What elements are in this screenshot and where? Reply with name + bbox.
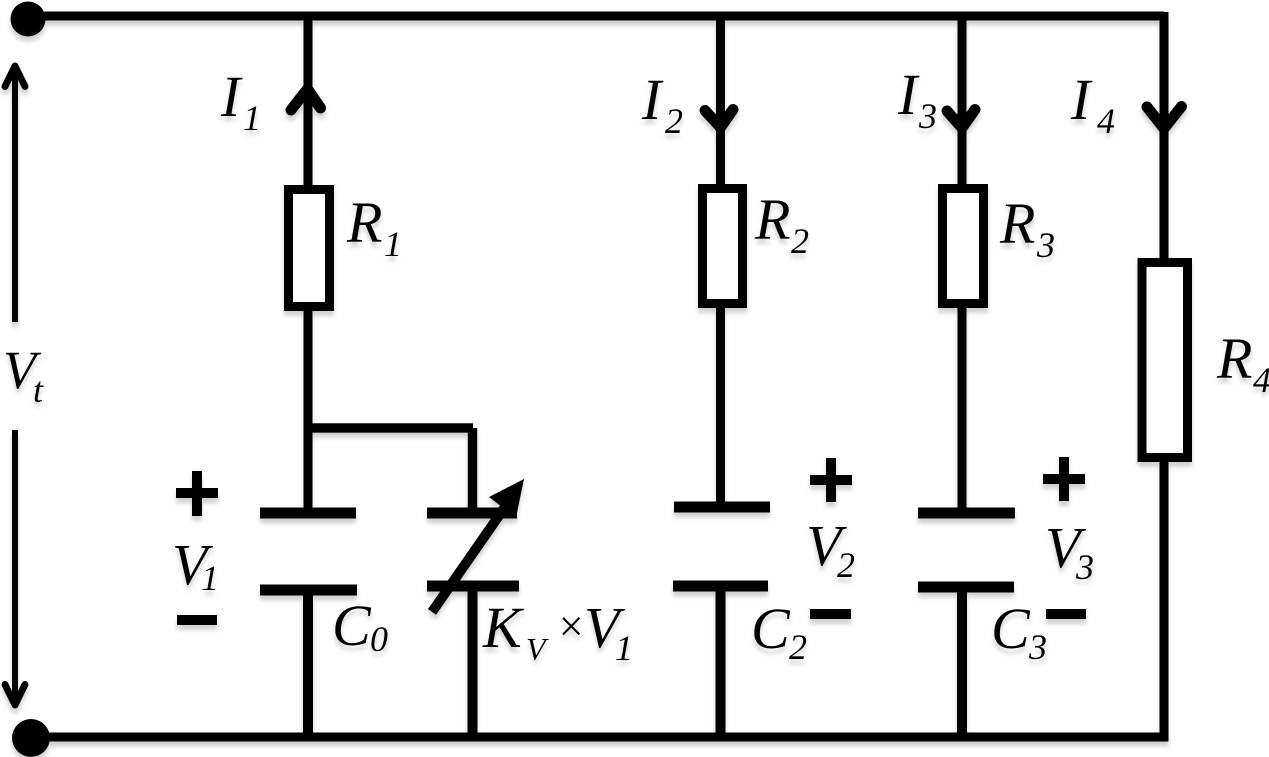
arrow I2 (down): [705, 110, 733, 128]
svg-text:2: 2: [665, 101, 683, 141]
resistor R1: [289, 190, 330, 307]
capacitor C2 top plate: [674, 502, 770, 513]
wire R3 to C3: [958, 303, 967, 508]
wire varactor to bottom rail: [468, 586, 478, 737]
wire R1 to C0: [304, 306, 313, 509]
wire right vertical upper: [1160, 12, 1169, 262]
wire C3 to bottom rail: [957, 587, 967, 737]
svg-text:V: V: [526, 631, 549, 667]
label minus V2: [810, 609, 851, 619]
svg-text:K: K: [482, 595, 525, 660]
arrow I1 (up): [291, 89, 321, 110]
svg-text:I: I: [1070, 67, 1093, 132]
svg-text:C: C: [332, 593, 372, 658]
capacitor C3 bottom plate: [918, 582, 1014, 593]
wire branch1 top: [304, 16, 313, 189]
svg-text:1: 1: [615, 628, 633, 668]
wire branch2 top: [716, 16, 725, 188]
svg-text:3: 3: [1075, 547, 1094, 587]
node bottom-left: [12, 719, 50, 757]
varactor arrow diagonal: [432, 507, 505, 612]
Vt double arrow: [5, 66, 25, 705]
svg-text:I: I: [641, 67, 664, 132]
varactor bottom plate: [427, 581, 519, 592]
svg-text:3: 3: [1028, 627, 1047, 667]
wire bottom rail: [31, 733, 1169, 742]
svg-text:1: 1: [201, 558, 219, 598]
svg-text:C: C: [751, 596, 791, 661]
svg-text:R: R: [346, 190, 382, 255]
wire right vertical lower: [1160, 457, 1169, 741]
resistor R2: [703, 189, 743, 304]
arrow I4 (down): [1147, 107, 1182, 129]
label plus V1: [176, 471, 218, 516]
svg-text:0: 0: [370, 619, 388, 659]
wire C0 to bottom rail: [303, 590, 313, 737]
svg-text:2: 2: [791, 221, 809, 261]
capacitor C0 bottom plate: [260, 585, 357, 596]
svg-text:I: I: [220, 64, 243, 129]
svg-text:3: 3: [1036, 225, 1055, 265]
svg-text:4: 4: [1097, 101, 1115, 141]
svg-text:R: R: [999, 191, 1035, 256]
varactor top plate: [427, 508, 517, 519]
node top-left: [11, 2, 46, 37]
label minus V1: [177, 615, 217, 625]
label minus V3: [1046, 609, 1086, 619]
wire branch3 top: [958, 16, 967, 188]
svg-text:3: 3: [918, 96, 937, 136]
svg-text:×: ×: [556, 602, 586, 651]
svg-text:R: R: [754, 187, 790, 252]
wire top rail: [28, 12, 1164, 21]
svg-text:2: 2: [837, 545, 855, 585]
wire T-branch horizontal: [308, 423, 473, 433]
capacitor C0 top plate: [260, 508, 356, 519]
svg-text:R: R: [1216, 326, 1252, 391]
svg-text:I: I: [897, 62, 920, 127]
svg-text:4: 4: [1253, 360, 1269, 400]
wire C2 to bottom rail: [716, 586, 726, 737]
svg-text:1: 1: [243, 98, 261, 138]
label plus V3: [1043, 457, 1085, 501]
resistor R3: [943, 189, 984, 304]
resistor R4: [1142, 263, 1188, 458]
label plus V2: [810, 458, 852, 502]
capacitor C3 top plate: [918, 508, 1015, 519]
svg-text:2: 2: [789, 627, 807, 667]
svg-text:C: C: [991, 596, 1031, 661]
svg-text:1: 1: [384, 224, 402, 264]
wire elbow down to varcap: [468, 428, 478, 509]
arrow I3 (down): [947, 110, 975, 129]
capacitor C2 bottom plate: [673, 581, 768, 592]
wire R2 to C2: [716, 303, 725, 503]
svg-text:t: t: [33, 370, 44, 410]
